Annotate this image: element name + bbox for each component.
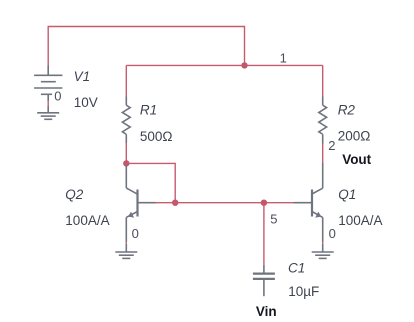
wire Q2 emitter to ground <box>125 242 127 244</box>
junction top <box>241 62 247 68</box>
junction node 5 <box>261 200 267 206</box>
emitter arrow Q2 <box>128 212 134 218</box>
capacitor C1 <box>253 265 275 296</box>
resistor R1 <box>122 97 130 144</box>
wire bus to R2 top <box>322 65 324 96</box>
svg-text:Vin: Vin <box>256 304 277 319</box>
wire V1 minus to ground <box>47 101 49 105</box>
svg-text:2: 2 <box>328 138 335 153</box>
svg-text:V1: V1 <box>74 69 91 84</box>
svg-text:100A/A: 100A/A <box>65 213 109 228</box>
junction R1 bottom <box>123 160 129 166</box>
svg-text:0: 0 <box>54 88 61 103</box>
wire node 5 to C1 top (net Vin) <box>263 203 265 265</box>
wire R2 bottom to Q1 collector (net Vout) <box>322 144 324 164</box>
transistor Q1 (NPN) <box>294 163 323 242</box>
ground (V1) <box>37 106 59 120</box>
wire main horizontal bus y=65.4 <box>126 64 322 66</box>
transistor Q2 (mirrored NPN) <box>126 165 155 242</box>
ground (Q1) <box>312 244 334 259</box>
label box mask over plate <box>52 89 62 101</box>
svg-text:Vout: Vout <box>342 152 371 167</box>
svg-text:Q1: Q1 <box>338 187 356 202</box>
svg-text:5: 5 <box>270 212 277 227</box>
svg-text:200Ω: 200Ω <box>338 129 371 144</box>
wire top loop from V1 to node 1 column <box>48 27 244 66</box>
voltage source V1 <box>34 66 62 102</box>
svg-text:R2: R2 <box>338 102 356 117</box>
wire base bus y=202.7 <box>156 202 294 204</box>
svg-text:0: 0 <box>329 226 336 241</box>
ground (Q2) <box>115 244 137 259</box>
svg-text:C1: C1 <box>288 260 305 275</box>
svg-text:10V: 10V <box>74 95 98 110</box>
svg-text:10µF: 10µF <box>288 284 319 299</box>
wire R1 bottom to base column <box>126 163 175 202</box>
wire bus to R1 top <box>125 65 127 96</box>
svg-text:500Ω: 500Ω <box>140 129 173 144</box>
svg-text:Q2: Q2 <box>65 187 84 202</box>
svg-text:R1: R1 <box>140 102 157 117</box>
svg-text:100A/A: 100A/A <box>338 213 382 228</box>
svg-text:0: 0 <box>132 226 139 241</box>
junction base wire <box>172 200 178 206</box>
wire Q1 emitter to ground <box>322 242 324 244</box>
svg-text:1: 1 <box>280 51 287 66</box>
wire R1 bottom to junction <box>125 143 127 163</box>
emitter arrow Q1 <box>315 212 321 218</box>
resistor R2 <box>319 97 327 144</box>
